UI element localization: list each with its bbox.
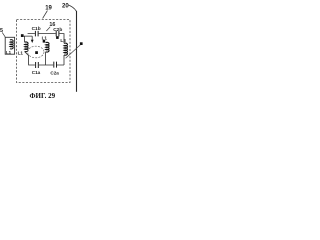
svg-text:ФИГ. 29: ФИГ. 29 — [30, 92, 56, 100]
svg-text:C2b: C2b — [53, 27, 62, 33]
svg-text:C1a: C1a — [32, 70, 41, 75]
svg-text:L3: L3 — [60, 38, 66, 43]
svg-text:L1: L1 — [42, 35, 48, 40]
svg-text:C1b: C1b — [32, 26, 41, 32]
svg-text:L1: L1 — [6, 50, 12, 55]
svg-text:L1: L1 — [18, 51, 24, 56]
svg-text:C2a: C2a — [50, 71, 59, 76]
svg-text:20: 20 — [62, 3, 69, 9]
svg-text:19: 19 — [45, 6, 52, 12]
